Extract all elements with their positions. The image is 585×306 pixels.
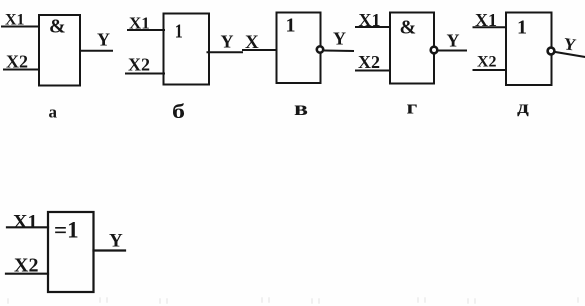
svg-text:б: б xyxy=(172,101,185,123)
svg-text:1: 1 xyxy=(175,20,183,42)
wire X2 to XOR gate xyxy=(6,273,48,275)
svg-text:г: г xyxy=(407,97,418,118)
svg-text:X1: X1 xyxy=(13,211,37,233)
wire gate а output xyxy=(80,50,112,52)
svg-text:&: & xyxy=(49,16,66,38)
wire X2 to gate б xyxy=(126,73,164,75)
OR gate DD2 (б) body xyxy=(164,14,210,85)
svg-text:X2: X2 xyxy=(477,54,497,71)
svg-text:в: в xyxy=(294,98,308,120)
wire gate д output (sloped) xyxy=(556,52,585,57)
wire gate в output xyxy=(325,50,353,53)
wire gate г output xyxy=(439,50,467,52)
wire X1 to XOR gate xyxy=(7,226,48,228)
wire XOR output xyxy=(94,249,126,251)
inversion bubble gate д xyxy=(548,48,555,55)
svg-text:=1: =1 xyxy=(54,218,79,243)
wire X2 to gate д xyxy=(474,69,507,71)
AND gate DD1 (а) body xyxy=(39,15,80,86)
svg-text:Y: Y xyxy=(333,29,346,49)
wire X2 to gate а xyxy=(4,69,39,71)
svg-text:Y: Y xyxy=(109,231,123,252)
NAND gate DD4 (г) body xyxy=(390,13,434,84)
wire gate б output xyxy=(208,51,243,53)
svg-text:Y: Y xyxy=(447,31,460,51)
svg-text:X2: X2 xyxy=(358,52,380,72)
wire X2 to gate г xyxy=(356,70,390,72)
inversion bubble gate г xyxy=(431,47,438,54)
wire X1 to gate а xyxy=(2,26,39,28)
svg-text:Y: Y xyxy=(221,32,234,52)
scan artifact: faint cut-off text row at page bottom xyxy=(8,298,578,303)
XOR gate DD6 body xyxy=(48,212,94,292)
wire X1 to gate б xyxy=(128,29,164,31)
svg-text:а: а xyxy=(49,103,58,122)
inversion bubble gate в xyxy=(317,46,323,52)
NOR gate DD5 (д) body xyxy=(506,13,552,86)
svg-text:Y: Y xyxy=(562,34,577,55)
svg-text:&: & xyxy=(400,16,417,38)
wire X to gate в xyxy=(243,49,276,51)
wire X1 to gate д xyxy=(474,26,507,28)
svg-text:Y: Y xyxy=(97,30,110,50)
NOT gate DD3 (в) body xyxy=(277,13,321,84)
wire X1 to gate г xyxy=(356,26,390,28)
svg-text:1: 1 xyxy=(286,15,296,37)
svg-text:X2: X2 xyxy=(128,55,150,75)
svg-text:1: 1 xyxy=(517,17,527,39)
svg-text:д: д xyxy=(517,96,529,117)
